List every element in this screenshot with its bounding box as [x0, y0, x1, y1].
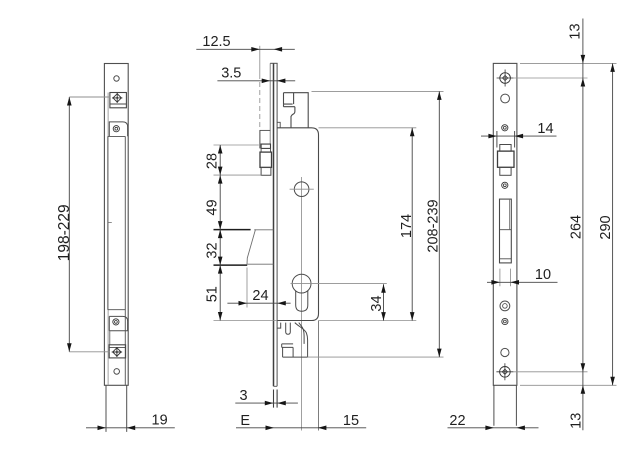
svg-text:15: 15 — [343, 413, 359, 429]
dimension 198-229 — [69, 97, 110, 352]
svg-text:13: 13 — [568, 23, 584, 39]
svg-text:12.5: 12.5 — [202, 34, 230, 50]
left plate inner left wall — [107, 93, 109, 386]
latch bolt front tip second lip — [261, 148, 270, 152]
ext cylinder axis (34 top) — [315, 283, 387, 285]
svg-text:198-229: 198-229 — [56, 204, 73, 261]
screw below latch — [502, 182, 508, 188]
notch rect — [277, 323, 281, 329]
ext hook bottom (208-239 bottom) — [308, 356, 444, 358]
bottom hole ring — [500, 301, 510, 311]
latch bolt front lower lip — [261, 167, 271, 175]
latch bolt front tip upper lip — [261, 144, 270, 148]
faceplate side lines — [270, 63, 277, 386]
svg-text:10: 10 — [535, 267, 551, 283]
latch head — [500, 145, 511, 152]
follower hole — [294, 182, 309, 197]
top keeper screw (double circle) — [113, 126, 119, 132]
left plate outline — [104, 64, 128, 386]
dimension 22 — [448, 427, 539, 429]
dimension line 13 top / 264 / 13 bottom — [582, 19, 584, 431]
svg-text:13: 13 — [568, 413, 584, 429]
hook bolt details below case — [277, 323, 307, 358]
faceplate top cap — [270, 62, 277, 64]
bottom screw box lip — [109, 346, 125, 348]
hook bottom edge — [283, 356, 308, 358]
top fixing screw crosshair — [497, 70, 514, 87]
ext top screw axis — [513, 77, 588, 79]
small screw above latch — [502, 125, 508, 131]
channel mid joint tick — [108, 222, 112, 224]
faceplate front face — [273, 63, 275, 386]
svg-text:3: 3 — [239, 388, 247, 404]
channel left wall — [107, 136, 109, 309]
svg-text:290: 290 — [598, 215, 614, 239]
ext 24 — [246, 268, 248, 308]
svg-text:28: 28 — [205, 153, 221, 169]
case back extension line to bottom — [318, 321, 320, 431]
top rounded keeper piece — [109, 122, 127, 136]
faceplate back tab — [277, 122, 280, 128]
deadbolt — [500, 199, 512, 263]
dimension 3.5 — [217, 80, 295, 82]
bottom screw (phillips diamond) — [112, 347, 122, 357]
ext bottom screw axis — [513, 371, 587, 373]
dimension 12.5 — [196, 48, 294, 50]
top screw box lip — [110, 103, 127, 105]
bottom screw box — [109, 345, 125, 358]
euro cylinder profile — [292, 274, 311, 293]
dimension 3 — [235, 402, 298, 404]
ext case top (174 top) — [319, 127, 417, 129]
top screw box — [110, 93, 127, 108]
hook outer curve — [295, 323, 308, 358]
ext plate top — [520, 62, 617, 64]
housing step profile — [291, 107, 295, 128]
bottom fixing screw crosshair — [496, 363, 513, 380]
latch bolt front main block — [260, 152, 272, 167]
svg-text:19: 19 — [152, 412, 168, 428]
faceplate back face — [276, 63, 278, 386]
extension line latch front (12.5) solid+dashed — [259, 46, 261, 74]
latch lower block — [500, 167, 511, 175]
hook block lip — [282, 344, 293, 348]
svg-text:49: 49 — [205, 199, 221, 215]
dimension 14 — [481, 135, 557, 137]
svg-text:3.5: 3.5 — [221, 65, 241, 81]
svg-text:51: 51 — [205, 286, 221, 302]
bottom keeper screw (double circle) — [113, 319, 119, 325]
svg-text:22: 22 — [449, 413, 465, 429]
svg-text:174: 174 — [399, 214, 415, 238]
dimension 24 — [227, 302, 290, 304]
bottom rounded keeper piece — [109, 316, 127, 330]
svg-text:E: E — [240, 413, 250, 429]
faceplate outer guide line — [269, 63, 271, 144]
top shootbolt housing block — [284, 93, 309, 128]
bottom plain hole — [501, 348, 509, 356]
dimension 10 — [487, 281, 558, 283]
dimension E / 15 — [236, 427, 366, 429]
chain ticks 28/49 — [214, 144, 259, 146]
channel bottom cap — [108, 309, 126, 311]
housing lip — [284, 104, 295, 107]
latch main block — [498, 151, 515, 167]
dimension 290 — [612, 63, 614, 385]
follower crosshair — [290, 188, 314, 190]
dimension 19 — [86, 427, 175, 429]
left plate top hole — [114, 76, 119, 81]
ext case bottom (51/34/174 bottom) — [214, 320, 417, 322]
bottom small screw — [502, 318, 508, 324]
right view extension lines — [500, 63, 617, 385]
svg-text:34: 34 — [369, 295, 385, 311]
hook block — [283, 347, 294, 357]
extension lines middle view — [214, 91, 444, 357]
ext 10 — [500, 269, 511, 287]
svg-text:264: 264 — [569, 215, 585, 239]
ext latch top (208-239 top) — [312, 90, 444, 92]
channel top cap — [108, 135, 126, 137]
svg-text:32: 32 — [205, 242, 221, 258]
chain dimension line 28/49/32/51 — [219, 145, 221, 321]
centre line of follower/cylinder — [301, 177, 303, 431]
svg-text:208-239: 208-239 — [426, 199, 442, 252]
ext 3 bottom tongue — [274, 390, 278, 408]
U slot — [286, 323, 291, 335]
top hole — [501, 94, 510, 103]
svg-text:24: 24 — [252, 288, 268, 304]
ext plate bottom — [520, 384, 617, 386]
left plate bottom hole — [114, 369, 120, 375]
cylinder crosshair — [291, 283, 315, 285]
channel right wall — [124, 136, 126, 385]
top screw (phillips diamond) — [112, 93, 122, 103]
latch slot walls — [497, 131, 515, 148]
dimension 208-239 — [438, 91, 440, 357]
dimension 34 — [383, 284, 385, 320]
faceplate bottom tip — [274, 385, 278, 387]
lock case body — [277, 128, 318, 321]
deadlock nose (32 zone) — [247, 229, 273, 264]
right faceplate outline — [493, 63, 517, 385]
chain bold tick 32 bottom — [214, 264, 248, 266]
chain bold tick 32 top — [214, 229, 251, 231]
dimension 174 — [411, 128, 413, 321]
hook inner curve — [299, 323, 304, 344]
latch front guide — [260, 130, 271, 148]
rod below right plate — [494, 385, 517, 425]
bottom link wall — [109, 331, 111, 345]
svg-text:14: 14 — [537, 121, 553, 137]
shootbolt rod below plate — [106, 385, 127, 432]
